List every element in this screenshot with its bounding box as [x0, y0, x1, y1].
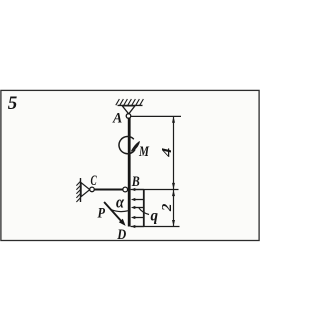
wall hatching: [76, 182, 80, 203]
moment M arc: [119, 137, 135, 154]
svg-text:4: 4: [160, 148, 175, 158]
q arrow row 2: [131, 198, 144, 201]
support A triangle: [122, 106, 135, 114]
q arrow row 4: [131, 216, 144, 219]
svg-text:M: M: [138, 144, 150, 160]
pin C circle: [90, 187, 95, 192]
svg-text:D: D: [116, 227, 126, 243]
dimension arrow down at D: [172, 220, 175, 226]
svg-text:B: B: [131, 174, 140, 190]
horizontal bar C-B: [94, 189, 123, 191]
force P arrowhead: [119, 219, 126, 226]
q arrow row 3: [131, 206, 144, 209]
q arrow row 5: [131, 225, 144, 228]
dimension arrow down at B: [172, 183, 175, 189]
pin A circle: [126, 114, 131, 119]
extension line at B level: [131, 189, 179, 191]
ceiling hatching: [116, 99, 144, 105]
q arrow row 1: [131, 188, 144, 191]
dimension arrow up at B: [172, 190, 175, 196]
dimension line: [173, 116, 175, 226]
dimension arrow up at A: [172, 116, 175, 122]
svg-text:C: C: [91, 173, 97, 189]
pin B circle: [123, 187, 128, 192]
wall line at support C: [80, 178, 82, 202]
svg-text:q: q: [151, 208, 159, 225]
q leader line: [139, 208, 149, 215]
extension line at A level: [131, 115, 181, 117]
angle alpha arc: [111, 210, 129, 212]
svg-text:2: 2: [160, 204, 175, 213]
frame border: [1, 90, 259, 240]
vertical bar A-D: [128, 118, 131, 227]
moment M arrowhead: [132, 142, 140, 151]
svg-text:P: P: [98, 206, 106, 222]
svg-text:A: A: [112, 111, 122, 127]
svg-text:5: 5: [8, 93, 18, 114]
force P arrow shaft: [104, 202, 121, 221]
support C triangle: [81, 183, 90, 197]
extension line at D level: [131, 226, 180, 228]
distributed load q right edge: [143, 190, 145, 227]
ceiling line at support A: [118, 104, 143, 106]
svg-text:α: α: [116, 193, 125, 212]
